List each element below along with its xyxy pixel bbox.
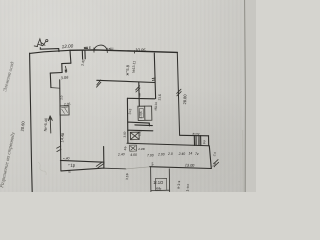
svg-text:пе: пе xyxy=(138,93,142,97)
svg-text:4Ф: 4Ф xyxy=(123,145,128,150)
lot boundary left wall xyxy=(30,53,33,192)
top parapet step xyxy=(40,48,59,52)
svg-text:3.60: 3.60 xyxy=(123,131,127,137)
svg-text:2.42: 2.42 xyxy=(81,59,86,66)
bottom room right wall xyxy=(168,169,170,192)
svg-text:2.40: 2.40 xyxy=(117,152,125,156)
porch top wall xyxy=(60,160,104,162)
svg-text:3.06: 3.06 xyxy=(61,75,70,81)
svg-text:вШ: вШ xyxy=(109,47,114,51)
svg-text:14: 14 xyxy=(189,152,193,156)
lot boundary bottom wall (left part) xyxy=(104,167,126,170)
dimension hatch on right wall (28.80) xyxy=(177,89,182,96)
svg-text:12.00: 12.00 xyxy=(62,43,74,49)
svg-text:20.60: 20.60 xyxy=(20,120,26,131)
north arrow sketch top-left xyxy=(34,39,46,47)
dimension hatch at y81 wall start xyxy=(97,80,101,87)
svg-text:3.1Ф: 3.1Ф xyxy=(125,172,130,180)
porch bottom wall xyxy=(61,168,104,171)
lot boundary top wall xyxy=(30,50,70,53)
dimension hatch on x138 wall xyxy=(136,86,140,92)
svg-text:2.4: 2.4 xyxy=(212,151,217,156)
svg-text:⁼1р: ⁼1р xyxy=(68,163,76,168)
svg-text:ат.пу: ат.пу xyxy=(192,132,199,136)
double dash marker left of door arc xyxy=(84,47,88,48)
wall end hatch ticks xyxy=(57,146,61,152)
annex porch box xyxy=(194,136,208,146)
interior wall horizontal y122 xyxy=(128,122,150,123)
page edge line xyxy=(244,0,247,192)
svg-text:2.0: 2.0 xyxy=(59,95,63,100)
lot boundary bottom wall (right part) xyxy=(150,167,212,169)
svg-text:№⁼6.40: №⁼6.40 xyxy=(44,118,49,132)
left stair-step outline: wall v3 xyxy=(49,73,52,88)
svg-text:1-э.с: 1-э.с xyxy=(186,183,191,191)
bottom room bottom wall xyxy=(151,189,170,191)
bottom room left wall xyxy=(150,167,152,192)
svg-text:№13-11: №13-11 xyxy=(132,61,137,73)
bottom wall of room cluster xyxy=(127,143,209,146)
svg-text:4.00: 4.00 xyxy=(130,153,137,157)
corner hatch at lot bottom-right corner xyxy=(214,160,219,167)
svg-text:14.48: 14.48 xyxy=(60,133,65,143)
svg-text:юЬ: юЬ xyxy=(156,187,162,191)
svg-text:Разрешение на стрвоввдз: Разрешение на стрвоввдз xyxy=(0,132,17,190)
interior wall vertical x154 xyxy=(154,53,155,98)
svg-text:2.35: 2.35 xyxy=(64,102,71,106)
interior wall vertical x127 xyxy=(126,98,129,143)
svg-text:2: 2 xyxy=(203,140,206,145)
height arrow symbol xyxy=(48,116,52,133)
svg-text:7г: 7г xyxy=(195,152,199,156)
svg-text:б: б xyxy=(69,170,71,174)
porch right pier wall xyxy=(103,147,105,169)
page edge shading band (right side of photographed page) xyxy=(246,0,256,192)
svg-text:7.00: 7.00 xyxy=(147,153,154,157)
interior wall horizontal y81 xyxy=(97,80,155,82)
svg-text:3.Б: 3.Б xyxy=(212,162,217,168)
small circle mark near 3.06 xyxy=(65,71,67,73)
interior wall stub vertical x149 xyxy=(148,123,150,126)
annex porch hatch steps xyxy=(196,136,198,146)
svg-text:Элемент освд: Элемент освд xyxy=(1,61,16,93)
svg-text:1г.1О: 1г.1О xyxy=(153,180,164,185)
tiny tick on facade near x135 xyxy=(133,51,135,54)
svg-text:10.05: 10.05 xyxy=(135,47,146,52)
small bath box with tub xyxy=(138,106,152,120)
main top facade wall xyxy=(70,50,177,53)
interior wall horizontal y130 xyxy=(128,129,153,132)
chimney box with cross xyxy=(130,132,139,140)
interior wall horizontal y98 xyxy=(128,97,155,100)
svg-text:2.4Ф: 2.4Ф xyxy=(137,147,145,151)
left stair-step outline: wall h2 xyxy=(50,72,62,75)
jog wall to inner left wall xyxy=(51,87,60,90)
svg-text:цч: цч xyxy=(150,162,154,166)
entry door arc on facade xyxy=(94,45,107,50)
svg-text:2.0: 2.0 xyxy=(167,152,173,156)
svg-text:я-1-э: я-1-э xyxy=(177,180,182,189)
arc end ticks xyxy=(94,48,107,53)
tub glyph inside bath box xyxy=(140,108,144,118)
left stair-step outline: wall v2 xyxy=(61,64,63,73)
annex top wall xyxy=(180,134,209,137)
svg-text:1.0|5: 1.0|5 xyxy=(139,111,143,119)
interior wall horizontal y125 xyxy=(135,124,152,127)
svg-text:≈.40: ≈.40 xyxy=(63,156,70,160)
svg-text:13.00: 13.00 xyxy=(185,163,196,167)
lot boundary bottom wall (faint middle gap) xyxy=(126,167,150,169)
left stair-step outline: wall v1 xyxy=(69,50,72,63)
svg-text:3+3: 3+3 xyxy=(128,108,132,114)
svg-text:ж⁼5.8: ж⁼5.8 xyxy=(125,64,131,75)
svg-text:2.40: 2.40 xyxy=(178,152,186,156)
small meter box below cluster wall xyxy=(130,145,137,151)
tick crossing wall x154 at y78 xyxy=(152,78,155,81)
door jamb pair below facade xyxy=(82,50,85,59)
svg-text:1,9у: 1,9у xyxy=(138,130,142,136)
svg-text:2.00: 2.00 xyxy=(157,152,165,156)
svg-text:пШ14: пШ14 xyxy=(154,102,159,111)
small tick mark near 3.06 xyxy=(65,66,67,70)
svg-text:31.Б: 31.Б xyxy=(158,94,162,101)
interior wall vertical x138 xyxy=(138,82,141,106)
corner hatch at porch bottom corner xyxy=(96,162,104,168)
inner left wall (long vertical) xyxy=(60,80,61,171)
lot right wall (porch to bottom corner) xyxy=(209,146,211,169)
faint pencil scribble bottom-left xyxy=(38,162,46,175)
bottom room inner box xyxy=(155,178,167,190)
north arrow circle xyxy=(46,40,48,42)
building right wall xyxy=(177,52,179,135)
annex porch extra hatch xyxy=(195,136,200,146)
left stair-step outline: wall h1 xyxy=(62,62,71,64)
stove box with flue hatch (left room) xyxy=(60,106,69,115)
svg-text:28.80: 28.80 xyxy=(182,94,188,105)
